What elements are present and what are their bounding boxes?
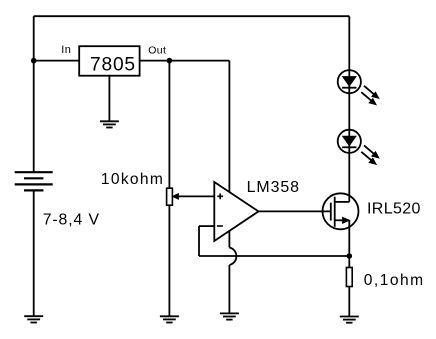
wire left column battery top [33,16,35,172]
wire op-amp output to gate [259,210,331,212]
resistor R2 sense [346,268,352,287]
ground regulator [100,121,119,127]
regulator U1 7805 [79,46,139,75]
ground sense resistor [340,317,359,323]
node In junction [31,58,37,64]
svg-text:0,1ohm: 0,1ohm [364,272,425,289]
wire Out rail to op-amp V+ corner [140,60,230,62]
gate bar [330,203,332,221]
svg-text:IRL520: IRL520 [367,201,421,218]
ground battery [24,316,43,322]
source lead [335,219,350,221]
wire regulator ground pin [108,76,110,122]
svg-text:7805: 7805 [90,54,136,75]
wire op-amp - input [199,225,214,227]
drain lead [335,201,350,203]
wire feedback bottom horizontal [199,255,349,257]
wire op-amp V- pin upper [228,231,230,248]
wire top rail V+ [34,15,350,17]
channel bar [334,197,336,227]
wire below sense resistor [348,287,350,317]
LED D1 [338,70,379,105]
wire In to regulator [34,60,79,62]
svg-text:LM358: LM358 [247,179,300,196]
node Out junction [167,58,173,64]
node source sense junction [347,253,353,259]
LED D2 [338,130,379,165]
wire source down to sense junction [348,220,350,267]
wire Out junction down to potentiometer [168,61,170,189]
wire feedback left vertical [198,226,200,256]
wire op-amp V+ pin [228,61,230,192]
ground op-amp V- [220,313,239,319]
ground potentiometer [160,316,179,322]
svg-text:7-8,4 V: 7-8,4 V [43,211,100,228]
svg-text:10kohm: 10kohm [101,171,164,188]
op-amp U2 LM358 [214,182,258,241]
battery B1 [15,172,53,190]
wire battery bottom to ground [33,190,35,316]
wire hop over feedback [229,248,236,266]
wire potentiometer to ground [168,205,170,316]
wire wiper to op-amp + input [178,195,214,197]
svg-text:In: In [61,44,71,56]
wire op-amp V- pin to ground [228,265,230,313]
potentiometer R1 [167,188,179,205]
svg-text:Out: Out [148,45,166,57]
transistor Q1 IRL520 [323,193,359,229]
source arrow [343,217,350,223]
wire LED column drain [348,16,350,202]
